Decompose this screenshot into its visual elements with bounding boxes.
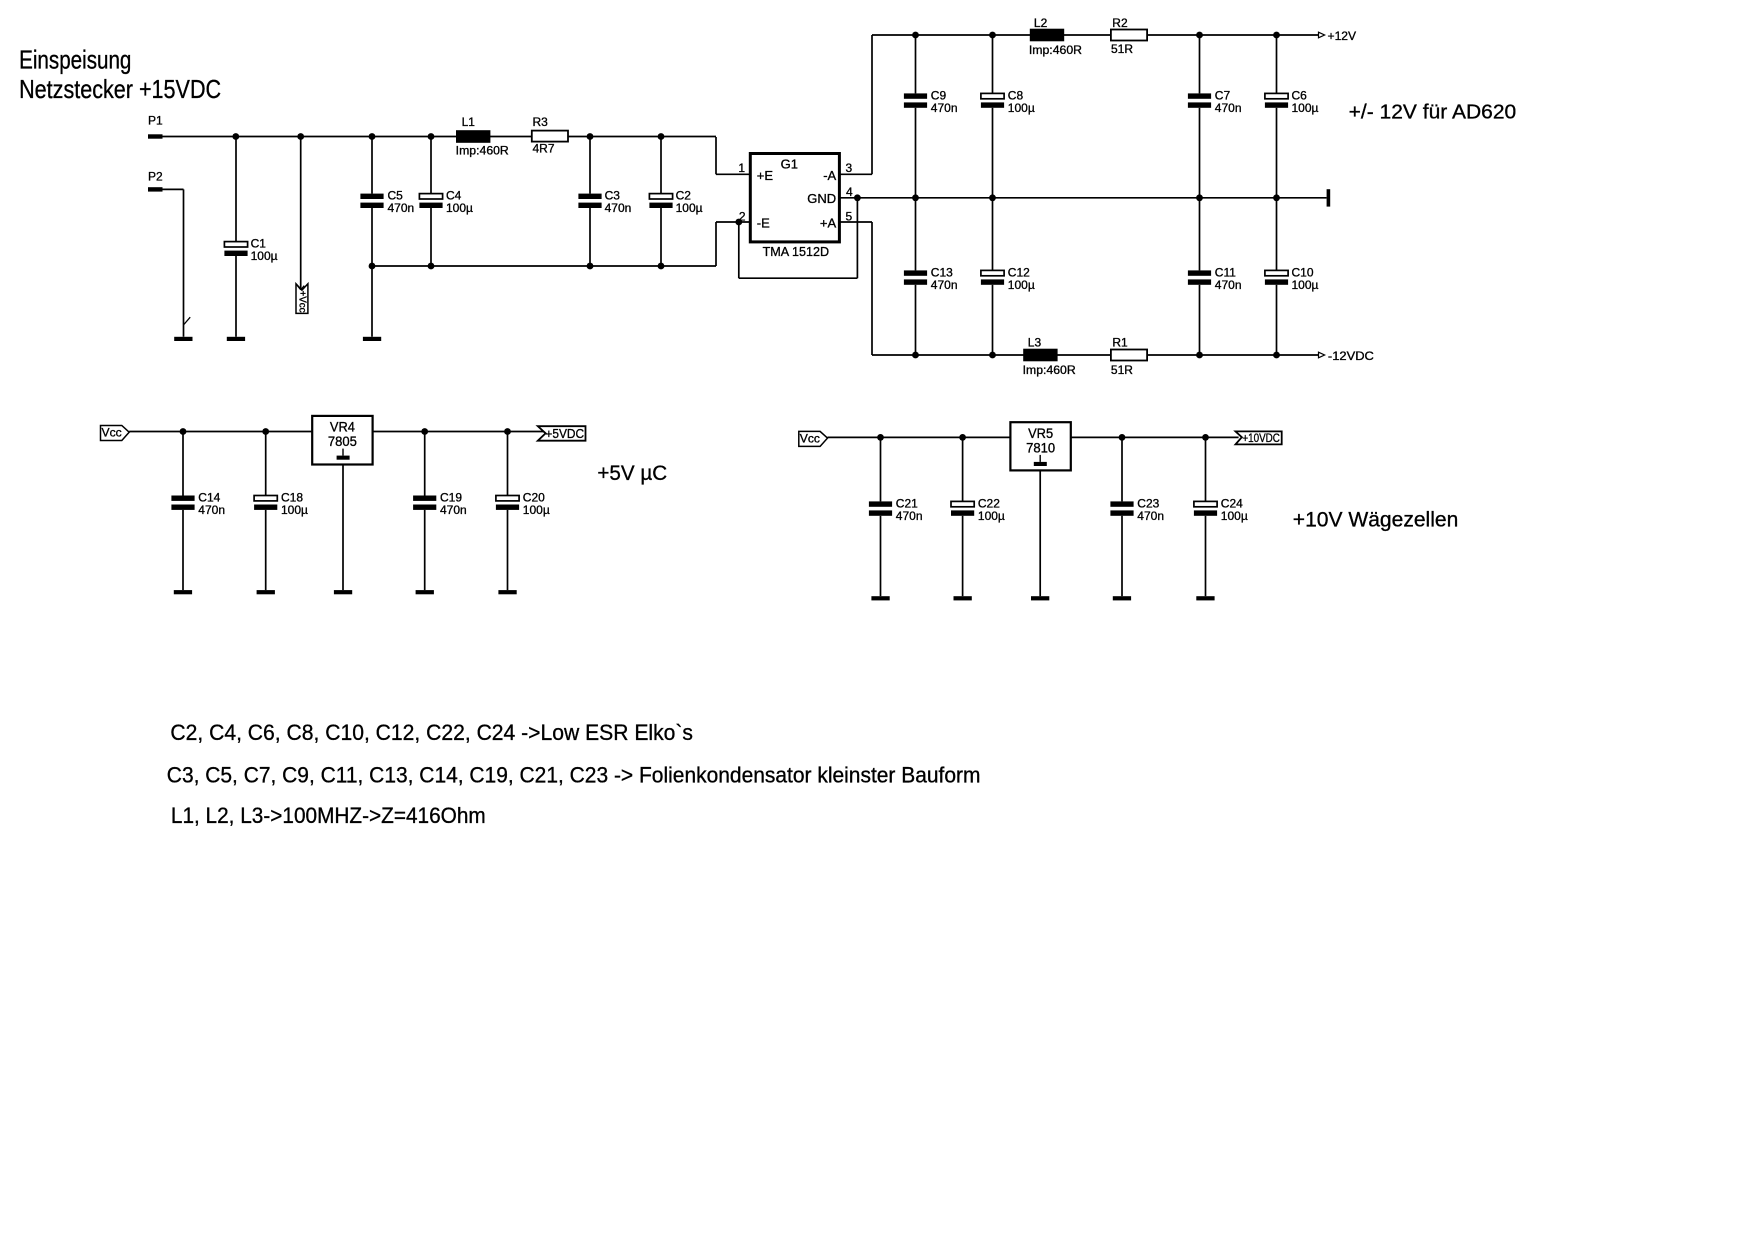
svg-text:Imp:460R: Imp:460R: [1029, 43, 1082, 57]
junction gnd rail x992.5: [989, 194, 996, 201]
svg-text:470n: 470n: [931, 278, 958, 292]
svg-text:100µ: 100µ: [676, 201, 703, 215]
resistor R1: [1111, 335, 1147, 377]
wire C18 top: [265, 432, 267, 496]
wire C18 bottom: [265, 510, 267, 590]
capacitor C20: [496, 490, 550, 517]
regulator VR4 7805: [312, 416, 372, 465]
wire loop up to GND: [856, 198, 858, 278]
wire 5V rail left: [129, 431, 312, 433]
wire 5V rail right: [373, 431, 545, 433]
junction C4 bottom tap: [428, 263, 435, 270]
connector pad P2: [148, 187, 163, 191]
capacitor C13: [904, 265, 958, 292]
svg-text:TMA 1512D: TMA 1512D: [763, 244, 830, 259]
svg-text:P2: P2: [148, 170, 163, 184]
svg-text:100µ: 100µ: [281, 503, 308, 517]
output arrow -12VDC: [1319, 352, 1325, 358]
wire -12V bottom rail: [872, 354, 1319, 356]
wire C3 bottom: [589, 208, 591, 266]
wire pin5 lead: [839, 221, 872, 223]
regulator VR5 7810: [1010, 422, 1070, 470]
svg-text:P1: P1: [148, 114, 163, 128]
wire C21 bottom: [880, 516, 882, 596]
svg-text:+10VDC: +10VDC: [1242, 431, 1280, 445]
wire C20 top: [507, 432, 509, 496]
wire C10 top: [1276, 198, 1278, 271]
wire VR4 ground lead: [342, 465, 344, 591]
ground P2 ground: [174, 337, 192, 341]
wire C2 bottom: [660, 208, 662, 266]
svg-text:100µ: 100µ: [1292, 278, 1319, 292]
svg-text:470n: 470n: [1215, 278, 1242, 292]
ground C23 ground: [1113, 596, 1131, 600]
wire C14 top: [182, 432, 184, 496]
capacitor C9: [904, 88, 958, 115]
svg-text:-E: -E: [757, 215, 770, 230]
no-connect slash on P2 wire: [184, 317, 190, 324]
wire C24 top: [1205, 437, 1207, 501]
ground C20 ground: [498, 590, 516, 594]
svg-text:Imp:460R: Imp:460R: [456, 143, 509, 157]
svg-text:100µ: 100µ: [446, 201, 473, 215]
svg-text:7805: 7805: [328, 433, 357, 449]
supply flag +Vcc: [296, 284, 308, 314]
capacitor C4: [419, 189, 473, 216]
junction 10V rail x1205.5: [1202, 434, 1209, 441]
resistor R2: [1111, 16, 1147, 56]
svg-text:100µ: 100µ: [251, 249, 278, 263]
wire 10V rail right: [1071, 436, 1239, 438]
svg-text:Imp:460R: Imp:460R: [1023, 363, 1076, 377]
wire C5 top: [371, 137, 373, 194]
junction 10V rail x1122: [1119, 434, 1126, 441]
wire C21 top: [880, 437, 882, 501]
wire pin5 riser: [871, 222, 873, 355]
svg-text:C2, C4, C6, C8, C10, C12, C22,: C2, C4, C6, C8, C10, C12, C22, C24 ->Low…: [170, 720, 693, 745]
capacitor C24: [1194, 496, 1248, 523]
wire C6 bottom: [1276, 108, 1278, 198]
svg-text:470n: 470n: [1215, 101, 1242, 115]
wire 10V rail left: [828, 436, 1011, 438]
svg-text:+12V: +12V: [1328, 29, 1357, 43]
svg-text:100µ: 100µ: [523, 503, 550, 517]
svg-text:Einspeisung: Einspeisung: [19, 45, 131, 75]
supply flag Vcc (5V): [101, 425, 130, 440]
junction top rail x915.5: [912, 32, 919, 39]
svg-text:100µ: 100µ: [1292, 101, 1319, 115]
junction Vcc tap: [297, 133, 304, 140]
wire C11 top: [1199, 198, 1201, 271]
junction 5V rail x183: [180, 428, 187, 435]
wire +12V top rail: [872, 34, 1319, 36]
junction C3 bottom tap: [587, 263, 594, 270]
wire C19 top: [424, 432, 426, 496]
ground symbol right: [1327, 189, 1331, 206]
capacitor C8: [981, 88, 1035, 115]
junction gnd rail x1276.5: [1273, 194, 1280, 201]
wire GND rail: [839, 197, 1326, 199]
wire C22 top: [962, 437, 964, 501]
svg-text:2: 2: [739, 209, 746, 223]
resistor R3: [532, 115, 568, 155]
capacitor C3: [578, 189, 631, 216]
wire C12 bottom: [992, 285, 994, 355]
wire C7 bottom: [1199, 108, 1201, 198]
svg-text:+E: +E: [757, 168, 774, 183]
wire C7 top: [1199, 35, 1201, 93]
ground C19 ground: [416, 590, 434, 594]
capacitor C22: [951, 496, 1005, 523]
wire pin3 lead: [839, 173, 872, 175]
svg-text:4R7: 4R7: [533, 141, 555, 155]
DC/DC converter G1 TMA 1512D: [750, 154, 839, 242]
svg-text:Vcc: Vcc: [102, 425, 122, 439]
svg-text:1: 1: [738, 161, 745, 175]
svg-text:R1: R1: [1112, 335, 1128, 349]
svg-text:L1: L1: [462, 115, 476, 129]
junction GND node: [854, 194, 861, 201]
junction 5V rail x507.5: [504, 428, 511, 435]
junction bottom rail x992.5: [989, 352, 996, 359]
capacitor C18: [254, 490, 308, 517]
wire C23 top: [1121, 437, 1123, 501]
capacitor C6: [1265, 88, 1319, 115]
wire C10 bottom: [1276, 285, 1278, 355]
wire P1 rail: [163, 136, 717, 138]
ground C22 ground: [954, 596, 972, 600]
svg-text:100µ: 100µ: [1221, 509, 1248, 523]
wire C19 bottom: [424, 510, 426, 590]
wire loop pin2 down: [738, 222, 740, 278]
output arrow +12V: [1319, 32, 1325, 38]
junction 10V rail x962.6: [959, 434, 966, 441]
svg-text:100µ: 100µ: [1008, 101, 1035, 115]
wire riser to pin1: [715, 137, 717, 174]
wire C12 top: [992, 198, 994, 271]
wire C13 bottom: [915, 285, 917, 355]
svg-text:+/- 12V für AD620: +/- 12V für AD620: [1349, 102, 1517, 124]
wire C24 bottom: [1205, 516, 1207, 596]
wire pin1 lead: [716, 173, 750, 175]
wire P2 down to ground: [183, 189, 185, 336]
wire C2 top: [660, 137, 662, 194]
wire P2 to corner: [163, 188, 184, 190]
capacitor C1: [224, 237, 277, 264]
svg-text:470n: 470n: [896, 509, 923, 523]
wire C1 top: [235, 137, 237, 242]
junction gnd rail x1199.5: [1196, 194, 1203, 201]
junction bottom rail x1276.5: [1273, 352, 1280, 359]
junction bottom rail x915.5: [912, 352, 919, 359]
wire C14 bottom: [182, 510, 184, 590]
net flag +10VDC: [1236, 431, 1282, 445]
junction 5V rail x424.7: [421, 428, 428, 435]
ground VR5 ground: [1031, 596, 1049, 600]
svg-text:C3, C5, C7, C9, C11, C13, C14,: C3, C5, C7, C9, C11, C13, C14, C19, C21,…: [167, 762, 981, 787]
wire VR5 ground lead: [1039, 470, 1041, 596]
svg-text:G1: G1: [781, 156, 798, 171]
svg-text:+Vcc: +Vcc: [296, 291, 307, 313]
wire pin2 lead: [716, 221, 750, 223]
svg-text:Vcc: Vcc: [800, 431, 820, 445]
wire riser bottom to pin2: [715, 222, 717, 266]
ground VR4 ground: [334, 590, 352, 594]
wire loop bottom: [739, 277, 858, 279]
svg-text:51R: 51R: [1111, 363, 1133, 377]
connector pad P1: [148, 134, 163, 138]
svg-text:100µ: 100µ: [978, 509, 1005, 523]
capacitor C7: [1188, 88, 1242, 115]
svg-text:+5V µC: +5V µC: [597, 462, 667, 485]
svg-text:-12VDC: -12VDC: [1328, 349, 1374, 363]
junction C5 tap: [369, 133, 376, 140]
ground C18 ground: [257, 590, 275, 594]
svg-text:+A: +A: [820, 215, 837, 230]
svg-text:470n: 470n: [1137, 509, 1164, 523]
capacitor C5: [360, 189, 414, 216]
wire C4 top: [430, 137, 432, 194]
wire C1 bottom: [235, 256, 237, 337]
wire C20 bottom: [507, 510, 509, 590]
svg-text:+10V Wägezellen: +10V Wägezellen: [1293, 509, 1459, 532]
wire C9 top: [915, 35, 917, 93]
junction gnd rail x915.5: [912, 194, 919, 201]
wire C23 bottom: [1121, 516, 1123, 596]
svg-text:L2: L2: [1034, 16, 1048, 30]
svg-text:L3: L3: [1028, 335, 1042, 349]
junction C3 tap: [587, 133, 594, 140]
inductor L2: [1029, 16, 1082, 57]
svg-text:L1, L2, L3->100MHZ->Z=416Ohm: L1, L2, L3->100MHZ->Z=416Ohm: [171, 803, 486, 828]
svg-text:-A: -A: [823, 168, 836, 183]
junction C2 bottom tap: [658, 263, 665, 270]
capacitor C23: [1110, 496, 1164, 523]
ground C24 ground: [1196, 596, 1214, 600]
junction bottom rail x1199.5: [1196, 352, 1203, 359]
svg-text:R3: R3: [533, 115, 549, 129]
wire C3 top: [589, 137, 591, 194]
svg-text:470n: 470n: [388, 201, 415, 215]
supply flag Vcc (10V): [799, 431, 828, 446]
junction 10V rail x880.5: [877, 434, 884, 441]
capacitor C10: [1265, 265, 1319, 292]
ground C1 ground: [227, 337, 245, 341]
wire C13 top: [915, 198, 917, 271]
wire C4 bottom: [430, 208, 432, 266]
wire C9 bottom: [915, 108, 917, 198]
wire pin3 riser: [871, 35, 873, 174]
capacitor C21: [869, 496, 923, 523]
svg-text:100µ: 100µ: [1008, 278, 1035, 292]
ground C5 ground: [363, 337, 381, 341]
ground C14 ground: [174, 590, 192, 594]
inductor L3: [1023, 335, 1076, 377]
svg-text:7810: 7810: [1026, 439, 1055, 455]
capacitor C14: [171, 490, 225, 517]
svg-text:51R: 51R: [1111, 42, 1133, 56]
capacitor C12: [981, 265, 1035, 292]
wire Vcc branch: [300, 137, 302, 291]
net flag +5VDC: [538, 426, 586, 441]
svg-text:470n: 470n: [931, 101, 958, 115]
junction top rail x1276.5: [1273, 32, 1280, 39]
svg-text:GND: GND: [807, 191, 836, 206]
inductor L1: [456, 115, 509, 157]
wire C8 bottom: [992, 108, 994, 198]
wire input bottom rail: [372, 265, 716, 267]
junction top rail x992.5: [989, 32, 996, 39]
wire C11 bottom: [1199, 285, 1201, 355]
svg-text:470n: 470n: [605, 201, 632, 215]
svg-text:R2: R2: [1112, 16, 1128, 30]
svg-text:470n: 470n: [440, 503, 467, 517]
capacitor C11: [1188, 265, 1242, 292]
svg-text:Netzstecker +15VDC: Netzstecker +15VDC: [19, 74, 221, 104]
wire C6 top: [1276, 35, 1278, 93]
wire C5 bottom: [371, 208, 373, 337]
junction C5 bottom tap: [369, 263, 376, 270]
wire C22 bottom: [962, 516, 964, 596]
svg-text:3: 3: [846, 161, 853, 175]
junction C4 tap: [428, 133, 435, 140]
junction C2 tap: [658, 133, 665, 140]
junction pin2 node: [735, 219, 742, 226]
junction top rail x1199.5: [1196, 32, 1203, 39]
junction 5V rail x265.7: [262, 428, 269, 435]
capacitor C2: [649, 189, 702, 216]
ground C21 ground: [871, 596, 889, 600]
svg-text:+5VDC: +5VDC: [545, 426, 584, 441]
junction C1 tap: [232, 133, 239, 140]
svg-text:470n: 470n: [198, 503, 225, 517]
capacitor C19: [413, 490, 467, 517]
wire C8 top: [992, 35, 994, 93]
